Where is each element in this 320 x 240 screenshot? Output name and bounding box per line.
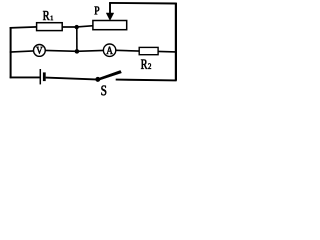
label R1 xyxy=(43,11,53,20)
ammeter A xyxy=(103,44,115,56)
wire middle left xyxy=(10,51,34,52)
battery cell xyxy=(40,69,44,84)
wire node to A xyxy=(77,49,104,52)
wire R2 to right vertical xyxy=(158,50,176,53)
wire R1 to node xyxy=(62,26,77,28)
resistor R1 xyxy=(37,23,63,31)
node junction middle xyxy=(75,49,79,53)
wire vertical link node-to-node xyxy=(76,27,78,51)
node junction top xyxy=(75,25,79,29)
potentiometer P body xyxy=(93,21,127,30)
wire A to R2 xyxy=(116,49,140,52)
voltmeter V xyxy=(34,45,46,57)
switch S blade xyxy=(97,71,121,81)
label P xyxy=(95,7,100,15)
switch S pivot xyxy=(96,77,100,81)
wire switch to bottom right xyxy=(116,79,177,82)
wire V to node xyxy=(45,49,77,52)
wire battery to switch xyxy=(46,78,99,80)
wire bottom left xyxy=(10,76,40,78)
wire right vertical xyxy=(175,3,177,81)
label S xyxy=(101,86,106,96)
wire left vertical xyxy=(10,27,12,78)
wire top right xyxy=(109,2,177,5)
label R2 xyxy=(141,60,151,69)
resistor R2 xyxy=(139,47,158,54)
wire top-left to R1 xyxy=(10,27,38,28)
potentiometer wiper arrow xyxy=(106,3,113,20)
wire node to P xyxy=(77,26,94,27)
